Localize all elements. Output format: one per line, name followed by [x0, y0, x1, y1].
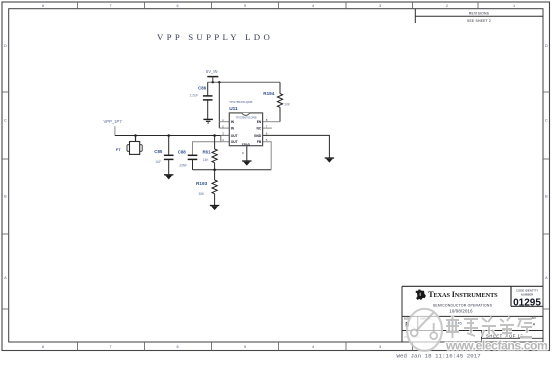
svg-text:C86: C86: [198, 85, 207, 90]
wire FB riser: [263, 142, 272, 170]
svg-text:6: 6: [176, 4, 178, 8]
svg-text:TPS7B6701DRB: TPS7B6701DRB: [236, 115, 257, 119]
junction C85: [167, 134, 170, 137]
ground arrow EPAD: [242, 161, 251, 166]
resistor R194: [277, 82, 282, 122]
sheet box: [481, 331, 483, 343]
junction FT stub: [134, 134, 137, 137]
svg-text:01295: 01295: [513, 297, 541, 308]
svg-text:SEMICONDUCTOR OPERATIONS: SEMICONDUCTOR OPERATIONS: [433, 303, 493, 307]
svg-text:C: C: [4, 119, 7, 123]
svg-text:8: 8: [42, 345, 44, 349]
ground bar under C86: [203, 119, 213, 123]
svg-text:5V_IN: 5V_IN: [206, 69, 218, 74]
wire VPP_1P7 drop: [114, 126, 116, 135]
svg-text:R194: R194: [263, 91, 274, 96]
svg-text:C88: C88: [178, 150, 187, 155]
wire FT stub: [135, 136, 137, 142]
svg-text:FB: FB: [257, 140, 262, 144]
svg-text:3: 3: [379, 345, 381, 349]
column numbers top: [42, 4, 515, 8]
svg-text:5: 5: [244, 345, 246, 349]
svg-text:4: 4: [312, 4, 314, 8]
wire pin4 to C88: [193, 142, 230, 155]
svg-text:GND: GND: [254, 134, 262, 138]
svg-text:3: 3: [379, 4, 381, 8]
watermark logo node circles: [411, 329, 418, 336]
svg-text:NC: NC: [257, 127, 262, 131]
svg-text:TEXAS INSTRUMENTS: TEXAS INSTRUMENTS: [428, 290, 498, 299]
svg-text:REVISIONS: REVISIONS: [469, 12, 490, 16]
svg-text:35K: 35K: [199, 192, 206, 196]
wire IN feed drop: [218, 82, 220, 128]
capacitor C85: [164, 136, 174, 175]
svg-text:D: D: [4, 44, 7, 48]
wire feedback node horizontal: [193, 169, 272, 171]
wire GND run: [263, 135, 330, 157]
svg-text:NUMBER: NUMBER: [521, 292, 534, 296]
svg-text:R61: R61: [203, 149, 212, 154]
svg-text:SEE SHEET 2: SEE SHEET 2: [467, 19, 491, 23]
svg-text:FT: FT: [116, 147, 121, 152]
svg-text:A: A: [4, 276, 7, 280]
svg-text:D: D: [545, 44, 548, 48]
svg-text:A: A: [545, 276, 548, 280]
frame row ticks left: [2, 92, 9, 309]
column numbers bottom: [42, 345, 515, 349]
component FT (test pad): [127, 142, 142, 155]
resistor R193: [212, 170, 217, 205]
wire pin3 stub: [221, 134, 230, 136]
wire EN to R194: [272, 121, 280, 123]
U11 pin numbers right: [266, 118, 268, 142]
sheet row divider: [402, 330, 543, 332]
svg-text:Wed Jan 18 11:16:45 2017: Wed Jan 18 11:16:45 2017: [397, 352, 481, 359]
svg-text:5: 5: [244, 4, 246, 8]
wire EPAD stub: [246, 146, 248, 161]
svg-text:8: 8: [42, 4, 44, 8]
ground arrow under C85: [164, 175, 173, 180]
svg-text:B: B: [4, 195, 7, 199]
U11 pin names left: [231, 120, 238, 144]
svg-text:33NF: 33NF: [179, 164, 187, 168]
svg-text:7: 7: [109, 4, 111, 8]
svg-text:1UF: 1UF: [155, 160, 161, 164]
ground arrow under R193: [210, 206, 219, 211]
U11 pin names right: [254, 120, 262, 144]
svg-text:VPP_1P7: VPP_1P7: [104, 119, 123, 124]
frame column ticks top: [78, 2, 479, 9]
row letters right: [545, 44, 548, 280]
title block left edge: [401, 286, 403, 342]
svg-text:R193: R193: [196, 181, 208, 186]
revisions table: [414, 9, 416, 23]
title block size row line: [402, 315, 543, 317]
TI logo: [416, 289, 426, 300]
junction feedback node: [213, 169, 216, 172]
wire pin3-pin4 tie: [220, 135, 222, 141]
wire pin1 stub: [219, 121, 229, 123]
svg-text:www.elecfans.com: www.elecfans.com: [445, 339, 548, 353]
wire NC stub: [263, 127, 272, 129]
svg-text:EN: EN: [257, 120, 262, 124]
svg-text:C85: C85: [154, 149, 163, 154]
capacitor C86: [203, 82, 213, 119]
title block top edge: [402, 285, 543, 287]
capacitor C88: [188, 155, 198, 170]
svg-text:A: A: [533, 323, 536, 327]
svg-text:14K: 14K: [203, 158, 210, 162]
svg-text:4: 4: [312, 345, 314, 349]
power symbol 5V_IN bar: [207, 76, 218, 78]
svg-text:EPAD: EPAD: [242, 142, 251, 146]
svg-text:10K: 10K: [284, 103, 291, 107]
wire OUT net horizontal: [115, 135, 221, 137]
svg-text:U11: U11: [229, 106, 238, 112]
svg-text:1: 1: [513, 4, 515, 8]
resistor R61: [212, 136, 217, 170]
svg-text:2: 2: [446, 4, 448, 8]
svg-text:VPP SUPPLY LDO: VPP SUPPLY LDO: [157, 32, 273, 42]
wire pin2 stub: [219, 127, 229, 129]
svg-text:10/08/2016: 10/08/2016: [449, 309, 473, 314]
ground arrow right: [325, 158, 334, 163]
svg-text:B: B: [545, 195, 548, 199]
svg-text:OUT: OUT: [231, 140, 238, 144]
watermark chinese glyph blocks: [446, 316, 532, 338]
frame row ticks right: [543, 92, 550, 309]
svg-text:2.2UF: 2.2UF: [190, 94, 199, 98]
junction 5V stub: [212, 81, 214, 83]
U11 pin numbers left: [222, 118, 224, 142]
row letters left: [4, 44, 7, 280]
junction IN drop: [218, 81, 220, 83]
watermark logo big circle: [407, 309, 442, 351]
size column divider: [417, 316, 419, 330]
code identity box: [511, 286, 543, 306]
wire 5V rail: [208, 81, 280, 83]
op-amp U11 body (LDO regulator): [229, 113, 262, 146]
junction R61 top: [213, 134, 216, 137]
watermark logo link line: [414, 312, 434, 333]
svg-text:C: C: [545, 119, 548, 123]
frame column ticks bottom: [78, 342, 479, 351]
svg-text:TPS7B6701QDB: TPS7B6701QDB: [229, 100, 252, 104]
svg-text:6: 6: [176, 345, 178, 349]
svg-text:OUT: OUT: [231, 134, 238, 138]
svg-text:7: 7: [109, 345, 111, 349]
